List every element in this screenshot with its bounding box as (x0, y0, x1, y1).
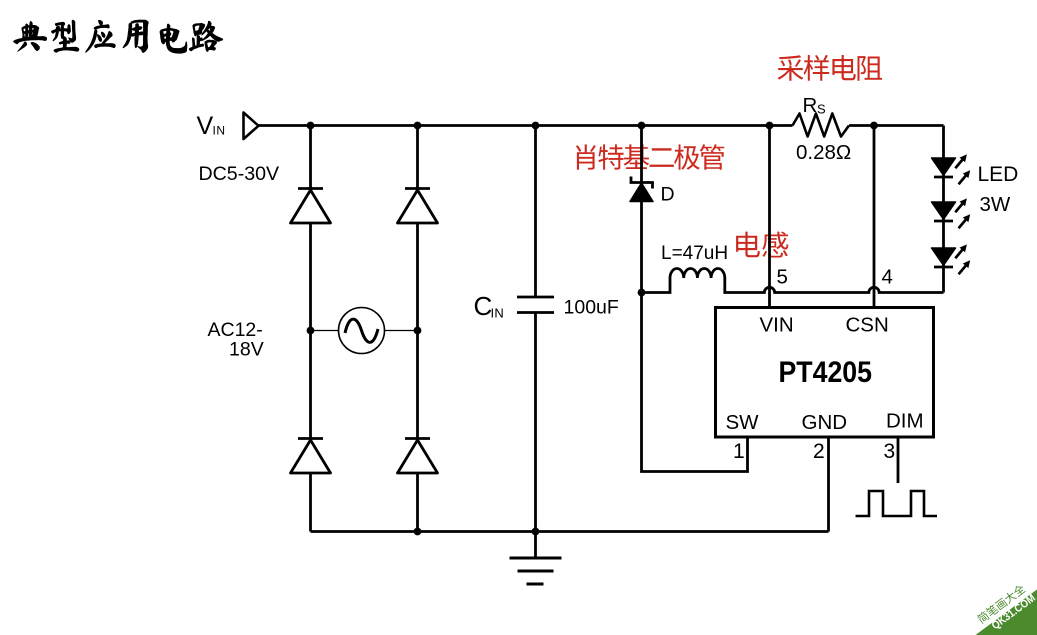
resistor RS zigzag (793, 114, 850, 137)
AC source (339, 308, 385, 354)
svg-text:CSN: CSN (846, 314, 889, 337)
ground symbol (510, 532, 562, 585)
svg-text:5: 5 (777, 266, 788, 289)
diode bridge top-right (398, 189, 438, 224)
svg-text:IN: IN (213, 124, 226, 138)
junction node 1 (307, 122, 315, 130)
diode bridge bottom-right (398, 439, 438, 474)
wire schottky/SW branch (642, 126, 748, 472)
wire GND pin2 vertical (827, 437, 830, 532)
LED D3 (932, 244, 971, 274)
svg-text:S: S (817, 102, 826, 117)
diode bridge top-left (291, 189, 331, 224)
wire VIN pin5 vertical (768, 126, 771, 308)
svg-text:0.28Ω: 0.28Ω (796, 141, 851, 164)
wire CIN column (534, 126, 537, 532)
wire bridge right vertical (416, 126, 419, 532)
label AC12-18V (208, 319, 264, 361)
label red 肖特基二极管 (576, 144, 725, 169)
capacitor CIN plates (517, 297, 554, 313)
label CIN (474, 291, 505, 321)
node VIN input terminal triangle (244, 113, 259, 140)
watermark QK31.COM (990, 592, 1037, 632)
junction node 10 (532, 528, 540, 536)
wire DIM pin3 vertical (897, 437, 900, 483)
svg-text:LED: LED (978, 163, 1019, 186)
junction node 4 (638, 122, 646, 130)
junction node 2 (414, 122, 422, 130)
junction node 8 (414, 327, 422, 335)
svg-text:C: C (474, 291, 493, 321)
label red 采样电阻 (778, 55, 883, 81)
label VIN (197, 112, 226, 140)
label RS (803, 94, 827, 117)
watermark 简笔画大全 (976, 583, 1026, 624)
PWM square wave (856, 491, 938, 516)
svg-text:VIN: VIN (760, 314, 794, 337)
schottky diode D (630, 177, 653, 202)
svg-text:100uF: 100uF (564, 297, 619, 319)
LED D1 (932, 154, 971, 184)
junction node 6 (870, 122, 878, 130)
svg-text:3W: 3W (980, 193, 1011, 216)
svg-text:GND: GND (802, 411, 848, 434)
junction node 9 (414, 528, 422, 536)
diode bridge bottom-left (291, 439, 331, 474)
junction node 3 (532, 122, 540, 130)
svg-text:4: 4 (882, 266, 893, 289)
wire top rail VIN (259, 124, 944, 127)
svg-text:DIM: DIM (886, 410, 924, 433)
junction node 5 (766, 122, 774, 130)
wire AC links (311, 330, 418, 332)
IC U1 PT4205 box (716, 308, 934, 438)
svg-text:D: D (661, 184, 675, 206)
svg-text:SW: SW (726, 411, 760, 434)
wire inductor row with hops (642, 269, 944, 293)
svg-text:PT4205: PT4205 (779, 356, 873, 389)
label LED 3W (978, 163, 1019, 216)
junction node 7 (307, 327, 315, 335)
wire LED column (942, 126, 945, 293)
svg-text:1: 1 (733, 440, 745, 463)
watermark banner (976, 590, 1037, 635)
svg-text:L=47uH: L=47uH (661, 243, 728, 264)
wire CSN pin4 vertical (873, 126, 876, 308)
label red 电感 (736, 232, 788, 258)
svg-text:3: 3 (884, 440, 896, 463)
svg-text:IN: IN (491, 306, 505, 321)
wire bridge left vertical (309, 126, 312, 532)
svg-text:18V: 18V (229, 339, 264, 361)
svg-text:2: 2 (813, 440, 825, 463)
wire bottom rail (311, 530, 829, 533)
svg-text:DC5-30V: DC5-30V (199, 163, 280, 185)
title 典型应用电路 (13, 20, 222, 53)
svg-text:R: R (803, 94, 818, 117)
svg-text:V: V (197, 112, 214, 140)
LED D2 (932, 198, 971, 228)
junction node 11 (638, 289, 646, 297)
